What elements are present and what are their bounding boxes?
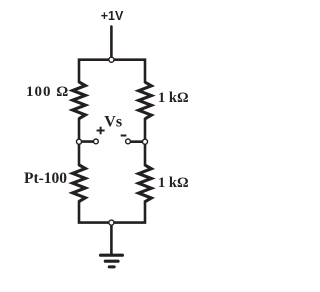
svg-text:Vs: Vs: [104, 114, 122, 131]
svg-text:1 kΩ: 1 kΩ: [158, 90, 189, 106]
svg-text:+1V: +1V: [101, 9, 124, 23]
svg-text:100 Ω: 100 Ω: [26, 84, 68, 100]
svg-text:Pt-100: Pt-100: [24, 170, 67, 187]
svg-text:1 kΩ: 1 kΩ: [158, 175, 189, 191]
